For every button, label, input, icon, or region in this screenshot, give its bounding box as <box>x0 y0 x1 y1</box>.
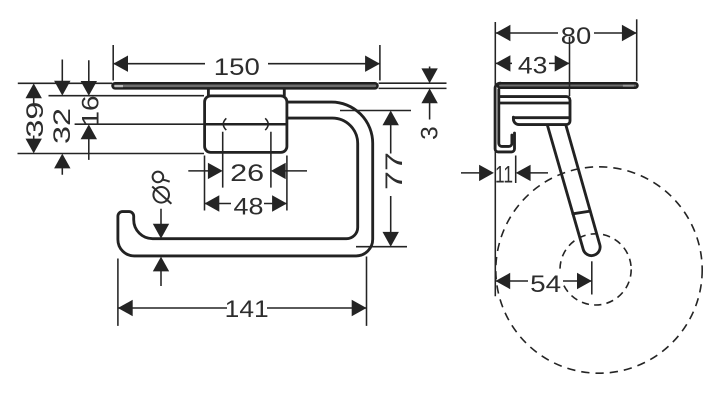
svg-text:43: 43 <box>518 52 548 79</box>
dim 48 <box>205 156 287 221</box>
dim 141 <box>118 257 367 326</box>
dim 26 <box>188 132 307 188</box>
svg-text:39: 39 <box>22 102 49 138</box>
dim 77 <box>340 111 411 247</box>
shelf bar front view <box>113 83 378 88</box>
wall reference line <box>494 22 496 296</box>
wall plate outer <box>495 83 514 152</box>
svg-text:11: 11 <box>495 162 513 189</box>
roll holder tube outline <box>118 102 373 256</box>
bracket lower internal line <box>513 116 569 119</box>
dim 43 <box>496 37 570 96</box>
dim 3 <box>379 67 447 140</box>
seam line across backplate <box>205 123 287 126</box>
svg-text:141: 141 <box>225 296 269 323</box>
dim 11 <box>461 156 548 189</box>
dim 54 <box>495 261 591 298</box>
svg-text:32: 32 <box>49 108 76 144</box>
dim 32 <box>49 60 76 175</box>
svg-text:16: 16 <box>78 96 105 127</box>
shelf side view <box>498 83 638 88</box>
paper roll outer dashed circle <box>496 167 702 373</box>
dim 150 <box>113 45 380 81</box>
tube break arc left <box>223 118 226 130</box>
svg-text:48: 48 <box>234 194 264 221</box>
paper roll core dashed circle <box>560 234 631 305</box>
left reference lines <box>18 82 113 84</box>
tube break arc right <box>265 118 268 130</box>
dim 16 <box>78 60 105 160</box>
svg-text:77: 77 <box>381 152 408 190</box>
dim 80 <box>496 19 637 81</box>
mounting tab under shelf <box>208 89 284 96</box>
svg-text:150: 150 <box>214 54 260 81</box>
svg-text:54: 54 <box>530 271 561 298</box>
svg-text:80: 80 <box>561 23 592 50</box>
bracket body <box>500 97 571 125</box>
dim 39 <box>22 83 49 153</box>
svg-text:3: 3 <box>416 126 443 140</box>
svg-text:26: 26 <box>230 160 264 187</box>
arm tube <box>547 125 600 255</box>
bracket internal line <box>500 102 570 105</box>
arm joint line <box>573 211 590 214</box>
backplate <box>205 96 287 152</box>
wall plate inner channel <box>499 90 512 147</box>
dim diameter 9 <box>152 172 171 286</box>
